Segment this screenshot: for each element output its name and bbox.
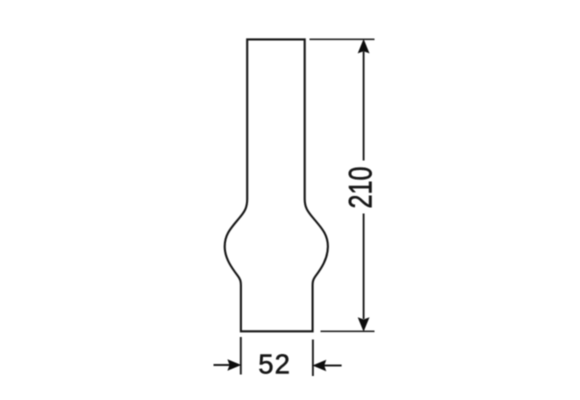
dimension 52: right-pointing arrowhead xyxy=(227,359,241,371)
dimension 52: left arrow tail xyxy=(214,364,231,366)
dimension 210: vertical dimension line lower segment xyxy=(363,214,365,320)
svg-text:210: 210 xyxy=(343,167,379,209)
dimension 52: right arrow tail xyxy=(324,365,342,367)
dimension 210: top extension line xyxy=(310,38,375,40)
dimension 210: up arrowhead xyxy=(358,39,370,54)
dimension 210: bottom extension line xyxy=(321,330,375,332)
dimension 52: left extension line xyxy=(240,337,242,375)
dimension 52: left-pointing arrowhead xyxy=(312,360,326,372)
svg-text:52: 52 xyxy=(258,348,291,379)
dimension 210: vertical dimension line upper segment xyxy=(363,52,365,161)
dimension 210: down arrowhead xyxy=(358,317,370,332)
lamp chimney glass outline xyxy=(225,39,328,331)
dimension 52: right extension line xyxy=(312,340,314,377)
